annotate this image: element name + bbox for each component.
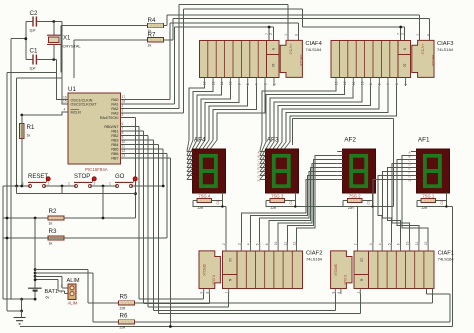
wire RA0 to bus	[121, 99, 171, 101]
sub-circuit CIAF4 main block	[280, 40, 302, 77]
svg-text:10: 10	[403, 64, 407, 68]
svg-text:3: 3	[263, 83, 267, 85]
svg-text:1: 1	[284, 34, 288, 36]
wire supply branch to R6	[35, 273, 93, 322]
node crystal bottom junction	[52, 58, 55, 61]
svg-text:3: 3	[395, 83, 399, 85]
svg-text:R2: R2	[49, 208, 57, 215]
svg-text:SRCLK: SRCLK	[334, 264, 338, 277]
svg-text:2pF: 2pF	[30, 29, 37, 33]
svg-text:1k: 1k	[148, 43, 152, 47]
svg-text:8: 8	[295, 34, 299, 36]
svg-text:11: 11	[220, 82, 224, 86]
top bus wire netC R4 to CIAF3	[167, 15, 420, 41]
svg-text:9: 9	[271, 48, 275, 50]
svg-text:6: 6	[237, 83, 241, 85]
sub-circuit CIAF3 inner boxes	[398, 40, 410, 54]
sub-circuit CIAF4 bottom pin stubs	[204, 77, 274, 86]
wire capacitor ground rail	[11, 22, 26, 60]
wire left rail A	[7, 73, 57, 311]
svg-text:1: 1	[404, 83, 408, 85]
svg-text:11: 11	[283, 242, 287, 246]
svg-text:RA4/T0CKI: RA4/T0CKI	[100, 116, 119, 120]
svg-text:CRYSTAL: CRYSTAL	[63, 44, 82, 49]
svg-text:X1: X1	[63, 36, 71, 42]
wire C2 left to rail	[26, 21, 33, 23]
svg-text:4: 4	[64, 108, 66, 112]
wire battery positive to ALIM pin2	[35, 280, 68, 294]
wire supply branch to ALIM pin1	[35, 275, 62, 277]
display AF4 input pin stubs	[187, 152, 193, 180]
wire crystal node to OSC2	[62, 22, 68, 105]
svg-text:12: 12	[343, 81, 347, 85]
svg-text:RA3: RA3	[111, 112, 118, 116]
svg-text:RB1: RB1	[111, 130, 118, 134]
svg-text:RB5: RB5	[111, 148, 118, 152]
wire RA4 to R2 row	[121, 118, 136, 219]
svg-text:3: 3	[122, 113, 124, 117]
svg-text:0 CLK: 0 CLK	[343, 275, 347, 286]
svg-text:22R: 22R	[120, 307, 127, 311]
svg-text:8: 8	[122, 131, 124, 135]
display AF1 input pin stubs	[411, 152, 417, 180]
wire left rail D	[3, 186, 11, 299]
svg-text:AF3: AF3	[267, 137, 279, 144]
sub-circuit CIAF2 inner boxes	[222, 251, 237, 275]
sub-circuit CIAF4 striped section	[199, 40, 266, 77]
svg-text:5: 5	[378, 83, 382, 85]
sub-circuit CIAF2 striped section	[237, 251, 302, 289]
svg-text:6: 6	[122, 122, 124, 126]
display AF1 feeder staircase from CIAF1	[373, 180, 411, 243]
svg-text:1: 1	[356, 292, 360, 294]
wire RB6 to R3 row	[121, 154, 167, 239]
svg-text:1k: 1k	[49, 242, 53, 246]
wire RA3 to bus	[121, 112, 184, 114]
svg-text:74LS164: 74LS164	[438, 257, 455, 262]
svg-text:74LS164: 74LS164	[437, 47, 454, 52]
svg-text:1: 1	[272, 83, 276, 85]
svg-text:1: 1	[109, 182, 111, 186]
svg-text:18: 18	[122, 100, 126, 104]
wire rail C join	[11, 298, 22, 300]
wire R7 right to top bus	[164, 19, 173, 40]
svg-text:1k: 1k	[27, 134, 31, 138]
svg-text:ALIM: ALIM	[68, 301, 78, 306]
svg-text:6: 6	[397, 243, 401, 245]
svg-text:10: 10	[360, 258, 364, 262]
svg-text:CC: CC	[216, 199, 220, 204]
resistor below AF3	[270, 198, 285, 202]
svg-text:74LS164: 74LS164	[305, 47, 322, 52]
svg-text:C1: C1	[30, 48, 38, 55]
svg-text:RB4: RB4	[111, 143, 118, 147]
wire RA2 to bus	[121, 108, 180, 110]
wire R4 right to top bus	[164, 15, 167, 26]
wire battery to ground	[21, 299, 23, 317]
sub-circuit CIAF2 bottom pin stubs	[204, 289, 229, 295]
svg-text:AF2: AF2	[344, 137, 356, 144]
svg-text:SRCLK: SRCLK	[431, 54, 435, 67]
top bus wire netB RA3 to CIAF3 with jog	[184, 9, 405, 113]
svg-text:2: 2	[222, 243, 226, 245]
svg-text:13: 13	[122, 154, 126, 158]
sub-circuit CIAF2 top pin stubs	[226, 243, 297, 251]
svg-text:9: 9	[403, 48, 407, 50]
sub-circuit CIAF2 main block	[199, 251, 220, 289]
wire RB5 to GO button	[121, 149, 164, 186]
svg-text:R4: R4	[148, 17, 156, 24]
wire R1 down to button row	[21, 115, 23, 186]
display AF3 input pin stubs	[260, 152, 266, 180]
svg-text:GO: GO	[115, 174, 125, 180]
top bus wire netA RA2 to CIAF4	[179, 5, 288, 109]
svg-text:10: 10	[406, 241, 410, 245]
svg-text:4: 4	[378, 243, 382, 245]
wire AF1 common cathode to right rail	[417, 192, 453, 326]
svg-text:74LS164: 74LS164	[306, 257, 323, 262]
svg-text:1k: 1k	[49, 222, 53, 226]
svg-text:BAT1: BAT1	[45, 289, 59, 295]
ground symbol	[14, 318, 26, 324]
svg-text:4: 4	[386, 83, 390, 85]
svg-text:2pF: 2pF	[30, 67, 37, 71]
svg-text:R3: R3	[49, 228, 57, 235]
sub-circuit CIAF4 inner boxes	[267, 40, 279, 54]
wire AF2 common cathode	[292, 119, 393, 207]
svg-text:RA1: RA1	[111, 103, 118, 107]
svg-text:17: 17	[122, 95, 126, 99]
push buttons row	[3, 185, 163, 187]
svg-text:6: 6	[265, 243, 269, 245]
svg-text:9: 9	[122, 136, 124, 140]
top bus wire netD R7 to CIAF3	[173, 19, 430, 41]
svg-text:10: 10	[228, 258, 232, 262]
wire battery negative	[22, 292, 35, 299]
sub-circuit CIAF1 main block	[331, 251, 352, 289]
svg-text:13: 13	[203, 81, 207, 85]
wire RB4 to bottom rail	[121, 145, 361, 314]
svg-text:2: 2	[354, 243, 358, 245]
svg-text:1: 1	[225, 292, 229, 294]
svg-text:7SG 1: 7SG 1	[422, 194, 435, 199]
wire R2 row	[3, 217, 136, 219]
display AF4 feeder fan from CIAF4	[189, 86, 204, 140]
wire ALIM pin1 riser	[62, 276, 68, 288]
svg-text:ALIM: ALIM	[67, 278, 80, 284]
wire second button row	[17, 186, 136, 194]
svg-text:RA2: RA2	[111, 107, 118, 111]
svg-text:11: 11	[122, 145, 126, 149]
svg-text:1: 1	[122, 104, 124, 108]
wire left rail B	[17, 78, 62, 186]
wire RB7 to ground rail	[121, 158, 171, 327]
svg-text:2: 2	[48, 182, 50, 186]
svg-text:RA0: RA0	[111, 98, 118, 102]
sub-circuit CIAF1 bottom pin stubs	[335, 289, 360, 295]
display AF2 feeder staircase from CIAF2	[241, 180, 337, 243]
svg-text:CC: CC	[440, 199, 444, 204]
top bus wire netF RA1 to CIAF4	[175, 27, 274, 104]
wire CIAF1 bottom pin drops	[335, 294, 360, 314]
svg-text:OSC2/CLKOUT: OSC2/CLKOUT	[71, 103, 98, 107]
battery rail junction wires	[34, 218, 36, 288]
wire R7 left branch	[74, 40, 147, 78]
wire CIAF2 bottom pin drops	[204, 294, 229, 308]
wire RB0 to bottom rail	[121, 127, 204, 300]
svg-text:12: 12	[122, 149, 126, 153]
svg-text:AF4: AF4	[194, 137, 206, 144]
svg-text:2: 2	[122, 109, 124, 113]
svg-text:5: 5	[256, 243, 260, 245]
svg-text:RB3: RB3	[111, 139, 118, 143]
svg-text:11: 11	[352, 82, 356, 86]
sub-circuit CIAF1 top pin stubs	[358, 243, 429, 251]
svg-text:1: 1	[68, 182, 70, 186]
svg-text:4: 4	[247, 243, 251, 245]
svg-text:AF1: AF1	[418, 137, 430, 144]
sub-circuit CIAF3 main block	[412, 40, 434, 77]
svg-text:10: 10	[271, 64, 275, 68]
svg-text:R1: R1	[27, 124, 35, 131]
svg-text:8: 8	[205, 292, 209, 294]
svg-text:RB7: RB7	[111, 157, 118, 161]
svg-text:CC: CC	[289, 199, 293, 204]
svg-text:U1: U1	[68, 86, 76, 93]
svg-text:6v: 6v	[46, 296, 50, 300]
svg-text:RESET: RESET	[28, 174, 48, 180]
svg-text:+V 5,0: +V 5,0	[289, 44, 293, 55]
svg-text:H: H	[258, 179, 260, 183]
svg-text:C2: C2	[30, 10, 38, 17]
wire left rail C	[10, 39, 12, 299]
resistor below AF4	[197, 198, 212, 202]
svg-text:9: 9	[331, 292, 335, 294]
wire bottom rail	[20, 326, 453, 328]
wire RB1 to bottom rail	[121, 131, 210, 304]
U1 left pin stubs	[62, 111, 68, 113]
wire AF3 common cathode	[266, 192, 358, 242]
wire supply branch to R5	[35, 270, 88, 304]
wire button row drops	[62, 186, 103, 218]
crystal X1	[53, 22, 55, 60]
wire AF4 common cathode	[193, 192, 226, 242]
wire crystal to OSC1	[57, 60, 69, 100]
svg-text:10: 10	[122, 140, 126, 144]
svg-text:12: 12	[424, 241, 428, 245]
svg-text:H: H	[409, 179, 411, 183]
svg-text:RB6: RB6	[111, 152, 118, 156]
battery BAT1	[28, 287, 41, 289]
display AF3 feeder fan from CIAF3	[262, 86, 336, 142]
svg-text:RB2: RB2	[111, 134, 118, 138]
svg-text:7SG 4: 7SG 4	[198, 194, 211, 199]
wire RA1 to bus	[121, 103, 175, 105]
sub-circuit CIAF1 inner boxes	[354, 251, 369, 275]
svg-text:SRCLK: SRCLK	[202, 264, 206, 277]
top bus wire netE RA0 to CIAF4	[170, 23, 299, 100]
svg-text:2: 2	[94, 182, 96, 186]
svg-text:R6: R6	[120, 313, 128, 320]
svg-text:12: 12	[211, 81, 215, 85]
svg-text:PIC16F84A: PIC16F84A	[85, 167, 108, 172]
svg-text:13: 13	[334, 81, 338, 85]
display AF2 input pin stubs	[337, 152, 343, 180]
svg-text:15: 15	[63, 100, 67, 104]
svg-text:3: 3	[369, 243, 373, 245]
U1 right pin stubs	[121, 100, 127, 159]
wire R4 left branch	[61, 26, 148, 73]
svg-text:7SG 3: 7SG 3	[271, 194, 284, 199]
sub-circuit CIAF3 striped section	[331, 40, 398, 77]
svg-text:4: 4	[255, 83, 259, 85]
svg-text:RB0/INT: RB0/INT	[104, 125, 119, 129]
svg-text:STOP: STOP	[74, 174, 90, 180]
sub-circuit CIAF1 striped section	[369, 251, 434, 289]
svg-text:22R: 22R	[120, 325, 127, 329]
resistor below AF2	[347, 198, 362, 202]
svg-text:10: 10	[229, 81, 233, 85]
wire C1 right	[36, 59, 56, 61]
svg-text:MCLR: MCLR	[71, 111, 82, 115]
svg-text:1: 1	[415, 34, 419, 36]
svg-text:R5: R5	[120, 294, 128, 301]
svg-text:12: 12	[293, 241, 297, 245]
wire R3 row	[3, 237, 167, 239]
node crystal top junction	[52, 20, 55, 23]
svg-text:8: 8	[426, 34, 430, 36]
svg-text:6: 6	[369, 83, 373, 85]
svg-text:3: 3	[237, 243, 241, 245]
resistor below AF1	[421, 198, 436, 202]
wire C2 right to OSC2 drop	[36, 21, 62, 23]
svg-text:10: 10	[360, 81, 364, 85]
wire RB3 to bottom rail	[121, 140, 336, 311]
svg-text:2: 2	[61, 290, 63, 294]
svg-text:5: 5	[387, 243, 391, 245]
svg-text:7SG 2: 7SG 2	[349, 194, 362, 199]
svg-text:8: 8	[337, 292, 341, 294]
wire RB2 to bottom rail	[121, 136, 229, 308]
svg-text:10: 10	[274, 241, 278, 245]
svg-text:9: 9	[200, 292, 204, 294]
svg-text:+V 5,0: +V 5,0	[420, 44, 424, 55]
wire R5 row	[88, 289, 433, 304]
svg-text:1: 1	[22, 182, 24, 186]
svg-text:2: 2	[401, 33, 405, 35]
svg-text:2: 2	[269, 33, 273, 35]
svg-text:SRCLK: SRCLK	[299, 54, 303, 67]
svg-text:0 CLK: 0 CLK	[212, 275, 216, 286]
node capacitor rail junction	[24, 37, 27, 40]
svg-text:2: 2	[135, 182, 137, 186]
wire R1 to MCLR	[22, 112, 68, 115]
svg-text:7: 7	[122, 127, 124, 131]
wire C1 left	[26, 59, 33, 61]
svg-text:11: 11	[415, 242, 419, 246]
wire R6 row	[93, 289, 450, 322]
svg-text:5: 5	[246, 83, 250, 85]
sub-circuit CIAF3 bottom pin stubs	[336, 77, 406, 86]
svg-text:CC: CC	[367, 199, 371, 204]
